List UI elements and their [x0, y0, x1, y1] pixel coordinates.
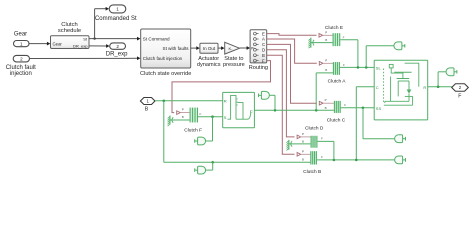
svg-text:K-: K-: [229, 46, 234, 51]
svg-text:2: 2: [116, 44, 119, 49]
svg-text:Commanded St: Commanded St: [95, 16, 137, 22]
svg-text:dynamics: dynamics: [197, 62, 221, 68]
svg-text:R: R: [224, 99, 227, 104]
svg-text:D: D: [262, 48, 265, 53]
svg-text:P: P: [302, 149, 304, 153]
svg-text:Clutch fault injection: Clutch fault injection: [143, 56, 183, 61]
svg-text:P: P: [325, 98, 327, 102]
svg-text:B: B: [302, 140, 304, 144]
svg-text:DR_exp: DR_exp: [73, 44, 88, 49]
svg-text:E: E: [262, 31, 265, 36]
svg-text:F: F: [262, 58, 265, 63]
svg-text:Gear: Gear: [14, 31, 27, 37]
svg-text:SS: SS: [376, 106, 382, 111]
svg-text:Clutch E: Clutch E: [325, 25, 343, 31]
svg-text:pressure: pressure: [223, 62, 245, 68]
svg-text:Gear: Gear: [53, 41, 63, 46]
svg-text:Clutch F: Clutch F: [184, 127, 202, 133]
svg-text:B: B: [325, 68, 327, 72]
svg-text:F: F: [343, 63, 345, 67]
svg-text:2: 2: [20, 56, 23, 61]
svg-text:In Out: In Out: [203, 46, 216, 51]
svg-text:Clutch: Clutch: [61, 22, 77, 28]
svg-text:DR_exp: DR_exp: [106, 52, 128, 58]
svg-text:P: P: [302, 132, 304, 136]
svg-text:Clutch state override: Clutch state override: [140, 71, 191, 77]
svg-text:St with faults: St with faults: [163, 46, 190, 51]
svg-text:B: B: [182, 115, 184, 119]
svg-text:B: B: [145, 107, 149, 113]
svg-text:Clutch B: Clutch B: [303, 169, 321, 175]
svg-text:C: C: [262, 42, 265, 47]
svg-text:F: F: [458, 94, 461, 100]
svg-text:F: F: [321, 136, 323, 140]
svg-text:Clutch D: Clutch D: [305, 125, 324, 131]
svg-text:R: R: [423, 85, 426, 90]
svg-text:1: 1: [116, 7, 119, 12]
svg-text:F: F: [344, 103, 346, 107]
svg-text:St Command: St Command: [143, 36, 170, 41]
svg-text:injection: injection: [10, 71, 32, 77]
svg-text:B: B: [302, 157, 304, 161]
svg-text:P: P: [325, 58, 327, 62]
svg-text:F: F: [200, 112, 202, 116]
svg-text:Clutch C: Clutch C: [327, 118, 346, 124]
svg-text:B: B: [262, 53, 265, 58]
svg-text:1: 1: [20, 41, 23, 46]
svg-text:Clutch A: Clutch A: [328, 79, 347, 85]
svg-text:F: F: [343, 36, 345, 40]
svg-text:B: B: [325, 38, 327, 42]
svg-text:schedule: schedule: [58, 28, 81, 34]
svg-text:Routing: Routing: [249, 65, 268, 71]
svg-text:S: S: [224, 115, 227, 120]
svg-text:F: F: [321, 155, 323, 159]
svg-text:P: P: [182, 108, 184, 112]
svg-text:B: B: [325, 106, 327, 110]
svg-text:SL: SL: [376, 65, 382, 70]
svg-text:A: A: [262, 37, 265, 42]
svg-text:C: C: [376, 85, 379, 90]
